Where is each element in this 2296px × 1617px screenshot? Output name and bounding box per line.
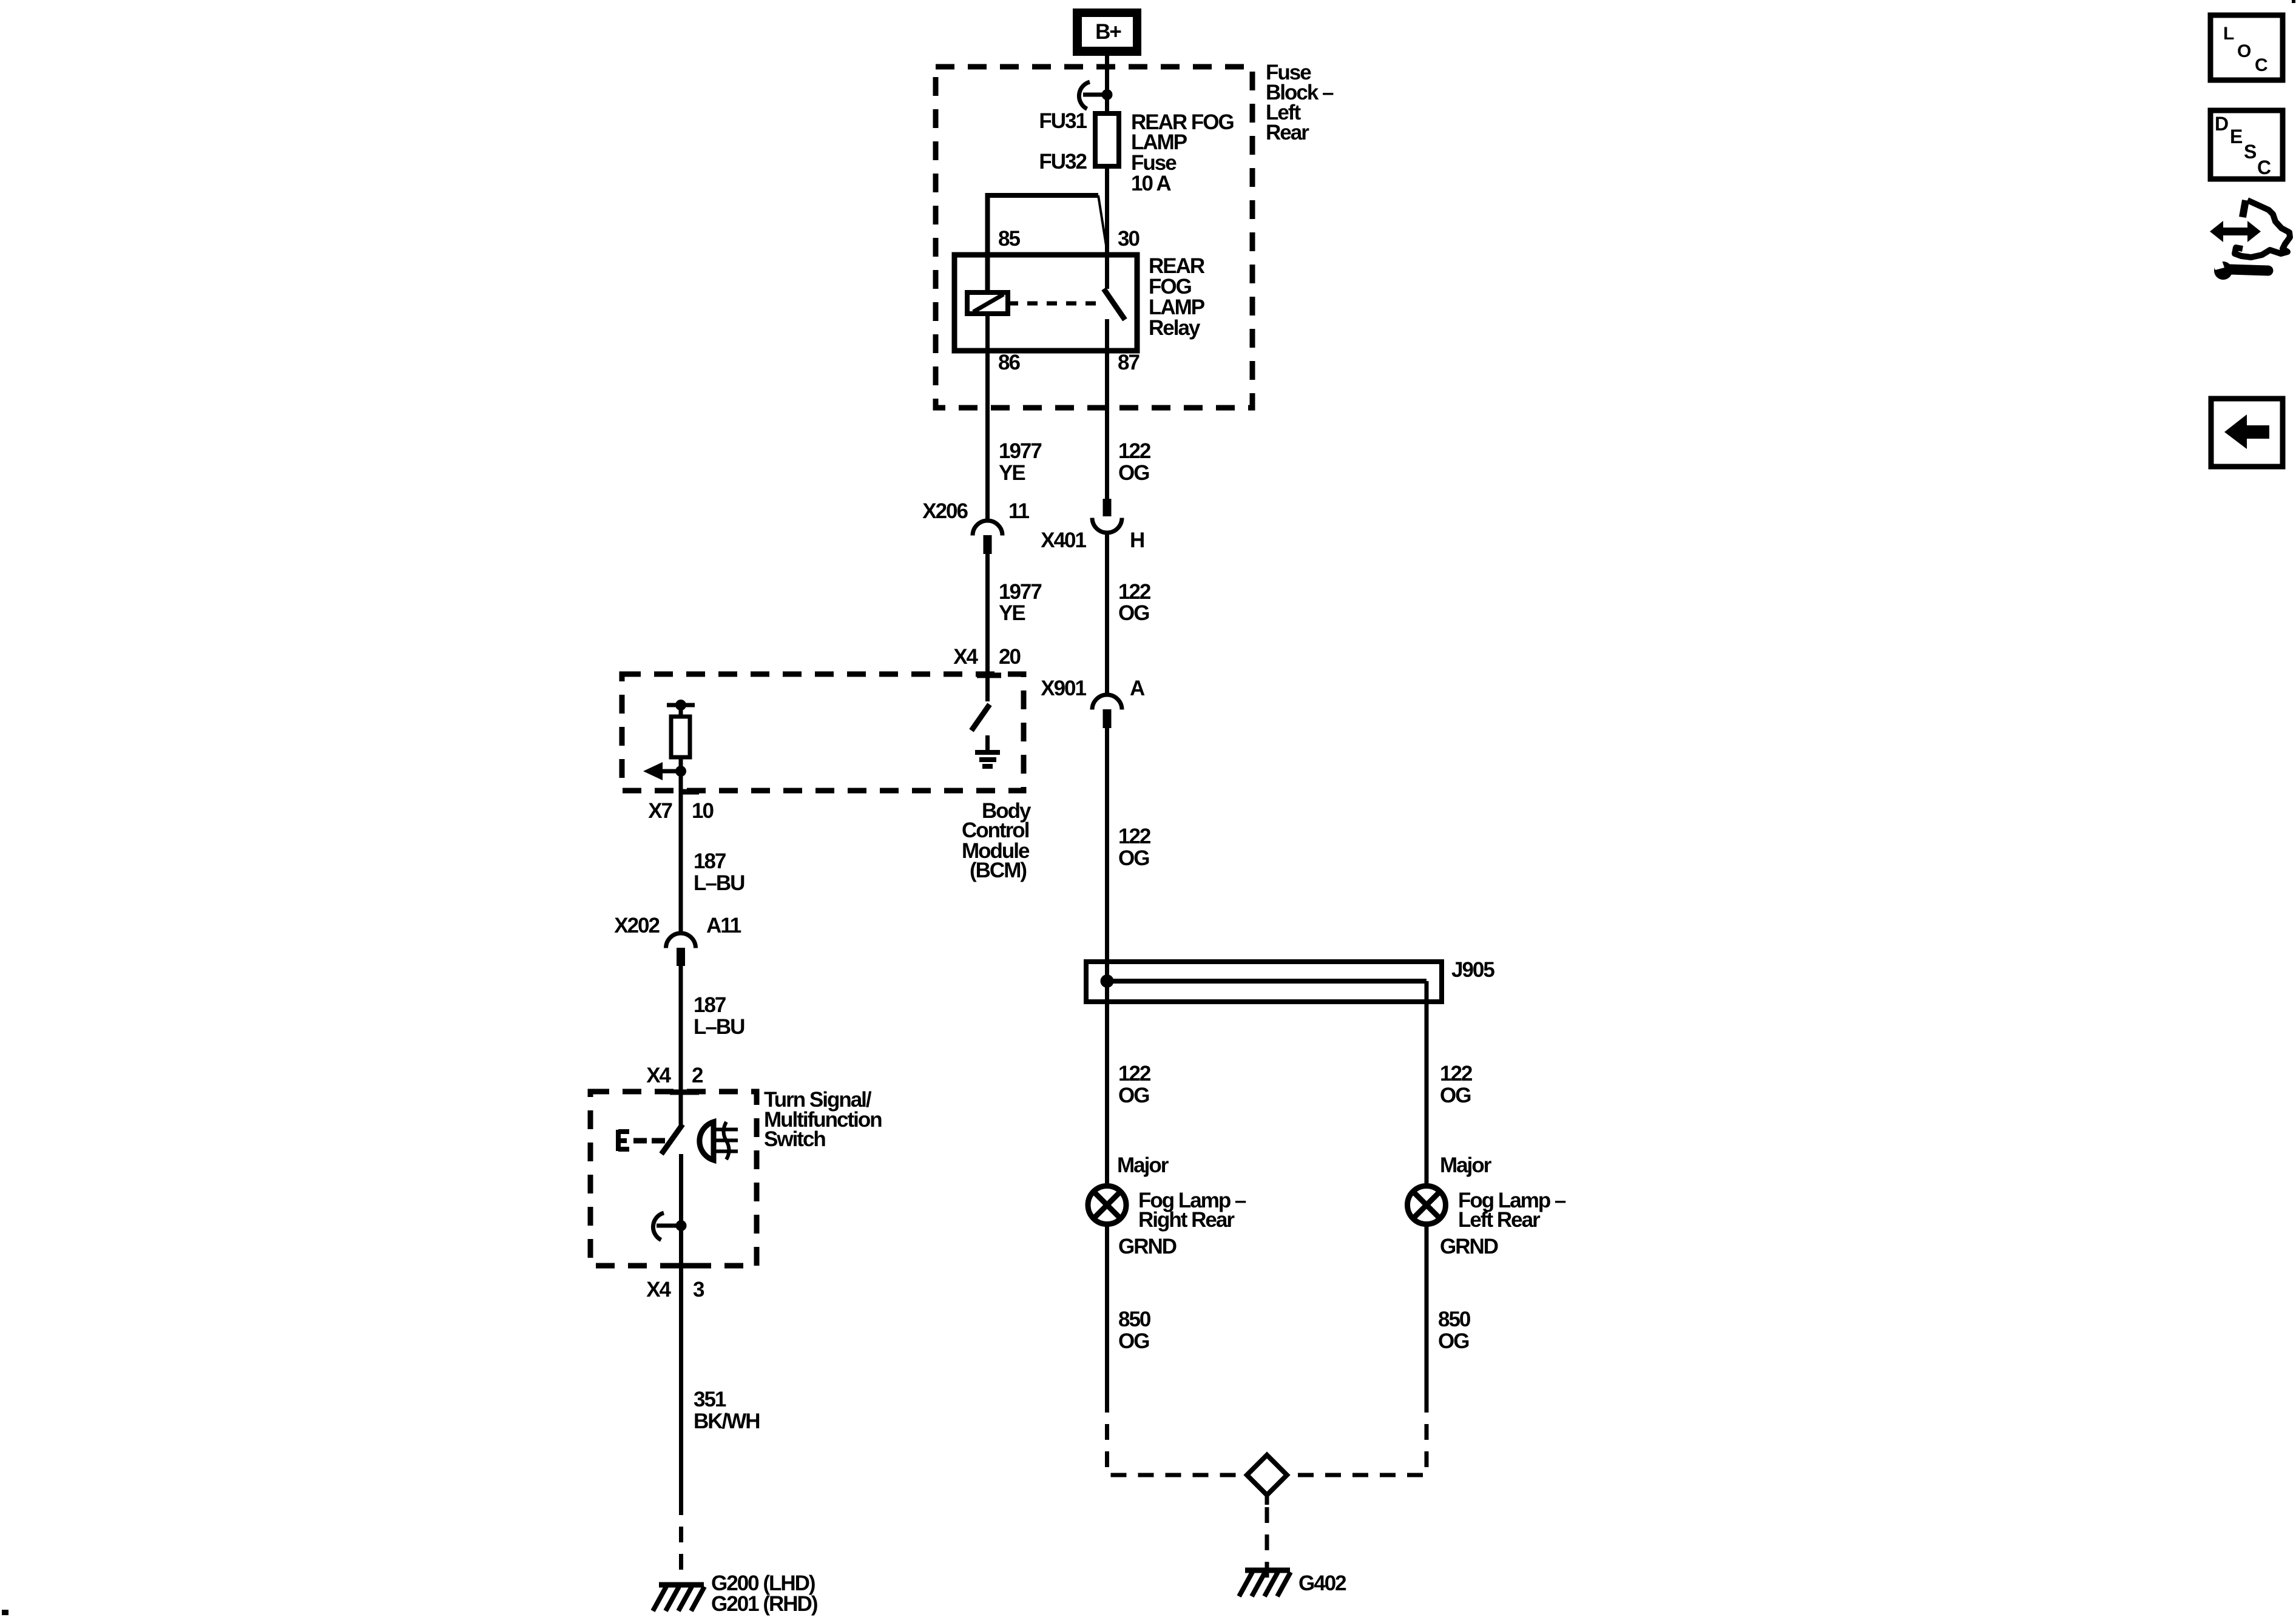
switch blade in turn signal switch (661, 1124, 683, 1154)
terminal tick at X7 crossing (680, 789, 699, 795)
svg-text:A11: A11 (706, 914, 741, 937)
connector X401 pin H (1092, 499, 1122, 533)
back arrow nav box (2211, 399, 2283, 467)
relay coil (967, 292, 1008, 314)
svg-text:FU32: FU32 (1039, 150, 1087, 174)
svg-text:187: 187 (694, 849, 726, 873)
wire label 122 OG (1118, 580, 1151, 625)
svg-text:YE: YE (999, 461, 1025, 485)
svg-text:122: 122 (1118, 439, 1151, 463)
wire label 187 L-BU (694, 993, 745, 1039)
svg-text:GRND: GRND (1440, 1235, 1498, 1258)
BCM driver switch blade (971, 704, 990, 731)
svg-text:X401: X401 (1041, 528, 1086, 552)
svg-text:OG: OG (1118, 1329, 1149, 1353)
svg-text:C: C (2257, 157, 2271, 178)
svg-text:L–BU: L–BU (694, 871, 745, 895)
svg-text:D: D (2215, 113, 2229, 135)
wire lamp RR to ground run (1105, 1226, 1109, 1397)
svg-text:X4: X4 (646, 1278, 671, 1301)
svg-text:X7: X7 (648, 799, 672, 823)
svg-text:YE: YE (999, 601, 1025, 625)
svg-text:GRND: GRND (1118, 1235, 1177, 1258)
splice diamond (1247, 1455, 1287, 1495)
svg-text:122: 122 (1440, 1062, 1473, 1085)
relay switch blade 30-87 (1104, 289, 1125, 320)
wire BCM out X7-10 (679, 771, 683, 934)
svg-text:Relay: Relay (1149, 316, 1201, 340)
wire blade to lower contact and out of switch (679, 1154, 683, 1499)
svg-text:OG: OG (1118, 1084, 1149, 1107)
relay coil-contact dashed link (1008, 302, 1102, 306)
svg-text:G402: G402 (1298, 1571, 1346, 1595)
diagnostic icon: arrow, component outline, wrench (2210, 200, 2290, 280)
wire fuse to relay pin 30 (1105, 166, 1109, 289)
svg-text:X4: X4 (953, 645, 978, 669)
connector X202 pin A11 (666, 933, 696, 966)
svg-text:A: A (1130, 677, 1145, 700)
svg-text:2: 2 (692, 1064, 703, 1087)
svg-text:G201 (RHD): G201 (RHD) (711, 1592, 817, 1616)
svg-text:351: 351 (694, 1388, 726, 1411)
svg-text:Right Rear: Right Rear (1138, 1208, 1235, 1232)
label Fuse Block Left Rear (1266, 61, 1334, 144)
svg-text:OG: OG (1118, 461, 1149, 485)
svg-text:L: L (2223, 24, 2234, 44)
svg-text:85: 85 (998, 227, 1020, 251)
wire label 122 OG (1118, 439, 1151, 485)
svg-text:B+: B+ (1095, 20, 1121, 44)
svg-text:BK/WH: BK/WH (694, 1409, 760, 1433)
svg-text:10: 10 (692, 799, 714, 823)
ground G402 (1239, 1570, 1291, 1596)
lamp Fog Lamp Right Rear (1088, 1186, 1126, 1224)
svg-text:L–BU: L–BU (694, 1015, 745, 1039)
wire label 1977 YE (999, 580, 1041, 625)
svg-text:OG: OG (1438, 1329, 1469, 1353)
svg-text:(BCM): (BCM) (970, 859, 1026, 882)
svg-text:E: E (2230, 126, 2243, 147)
svg-text:H: H (1130, 528, 1144, 552)
wire label 122 OG left branch (1118, 1062, 1151, 1107)
B+ power symbol (1073, 8, 1141, 56)
wire label 122 OG (1118, 825, 1151, 870)
BCM internal ground (975, 735, 1000, 766)
svg-text:Left Rear: Left Rear (1458, 1208, 1541, 1232)
svg-text:122: 122 (1118, 580, 1151, 604)
ground G200/G201 (653, 1585, 704, 1611)
svg-text:11: 11 (1008, 499, 1030, 523)
svg-text:O: O (2237, 41, 2251, 61)
svg-text:X206: X206 (922, 499, 968, 523)
dashed wire to G200 (679, 1499, 683, 1580)
svg-text:C: C (2255, 55, 2268, 75)
fog lamp indicator symbol (700, 1122, 738, 1160)
svg-text:FU31: FU31 (1039, 109, 1087, 133)
wire X202 down to switch (679, 966, 683, 1126)
turn signal switch dashed box (590, 1092, 757, 1266)
fuse FU31/FU32 REAR FOG LAMP Fuse 10A (1095, 113, 1119, 166)
svg-text:1977: 1977 (999, 580, 1041, 604)
svg-text:X202: X202 (614, 914, 660, 937)
page artifact dot top-right (2292, 0, 2295, 3)
splice pack J905 (1086, 962, 1442, 1002)
dashed wire splice to G402 (1265, 1495, 1269, 1505)
BCM resistor with junction and arrow output (643, 700, 695, 780)
svg-text:87: 87 (1118, 351, 1139, 374)
svg-text:OG: OG (1440, 1084, 1471, 1107)
svg-text:Major: Major (1117, 1153, 1169, 1177)
terminal tick top (670, 1090, 699, 1095)
connector X901 pin A (1092, 695, 1122, 728)
wire X401 down to X901 (1105, 533, 1109, 695)
svg-text:122: 122 (1118, 825, 1151, 848)
wire label 187 L-BU (694, 849, 745, 895)
svg-text:1977: 1977 (999, 439, 1041, 463)
wire X206 down to BCM (985, 554, 990, 701)
wire relay 86 down to X206 (985, 314, 990, 521)
lamp Fog Lamp Left Rear (1408, 1186, 1446, 1224)
svg-text:J905: J905 (1451, 958, 1494, 982)
LOC nav box (2210, 15, 2283, 80)
svg-text:20: 20 (999, 645, 1021, 669)
terminal tick at BCM edge (977, 673, 1001, 678)
clip terminal at B+ feed (1079, 82, 1112, 109)
svg-text:X4: X4 (646, 1064, 671, 1087)
page artifact dot bottom-left (2, 1610, 8, 1615)
svg-text:Major: Major (1440, 1153, 1492, 1177)
wire label 850 OG right (1438, 1308, 1471, 1353)
label Turn Signal Multifunction Switch (764, 1088, 882, 1151)
dashed ground wires to splice (1107, 1397, 1245, 1475)
svg-text:850: 850 (1118, 1308, 1151, 1331)
svg-text:3: 3 (693, 1278, 704, 1301)
wire label 850 OG left (1118, 1308, 1151, 1353)
wire X901 down through J905 to right rear lamp (1105, 728, 1109, 1183)
DESC nav box (2210, 110, 2283, 179)
svg-text:30: 30 (1118, 227, 1140, 251)
switch position marker E (618, 1130, 665, 1151)
fuse block dashed box (936, 67, 1252, 408)
svg-text:10 A: 10 A (1131, 172, 1171, 195)
svg-text:Switch: Switch (764, 1127, 825, 1151)
wire label 122 OG right branch (1440, 1062, 1473, 1107)
connector X206 pin 11 (973, 521, 1002, 554)
BCM dashed box (622, 674, 1024, 791)
wire tie 85/30: corner, horizontal, thin diagonal (988, 195, 1108, 292)
svg-text:Rear: Rear (1266, 121, 1309, 144)
relay box REAR FOG LAMP Relay (954, 255, 1137, 351)
svg-text:S: S (2244, 141, 2257, 163)
svg-text:850: 850 (1438, 1308, 1471, 1331)
wire label 351 BK/WH (694, 1388, 760, 1433)
label Body Control Module (BCM) (962, 799, 1032, 882)
terminal tick bottom of switch box (670, 1263, 699, 1269)
svg-text:OG: OG (1118, 601, 1149, 625)
wire label 1977 YE (999, 439, 1041, 485)
svg-text:86: 86 (998, 351, 1020, 374)
wire J905 to left rear lamp branch (1425, 981, 1429, 1183)
wire B+ to fuse FU31 (1105, 56, 1109, 114)
svg-text:122: 122 (1118, 1062, 1151, 1085)
wire relay 87 down to X401 (1105, 319, 1109, 499)
svg-text:OG: OG (1118, 846, 1149, 870)
wire lamp LR to ground run (1425, 1226, 1429, 1397)
svg-text:187: 187 (694, 993, 726, 1017)
clip contact in switch (653, 1213, 686, 1240)
svg-text:X901: X901 (1041, 677, 1086, 700)
